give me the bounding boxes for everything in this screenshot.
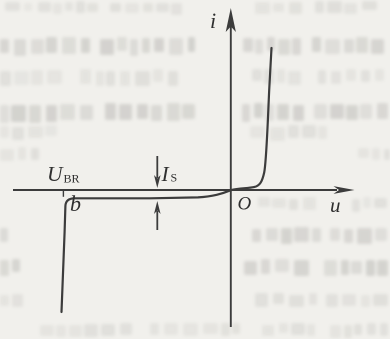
svg-text:S: S bbox=[171, 171, 178, 185]
svg-text:b: b bbox=[70, 191, 81, 216]
svg-text:I: I bbox=[161, 162, 170, 186]
i axis (vertical) with arrowhead bbox=[226, 8, 236, 327]
svg-text:i: i bbox=[210, 8, 216, 33]
I_S down arrow (above axis) bbox=[154, 156, 161, 188]
I_S up arrow (below saturation line) bbox=[154, 201, 161, 230]
diode characteristic curve (breakdown, reverse saturation, forward branch) bbox=[62, 48, 272, 312]
U_BR tick on u axis bbox=[62, 190, 64, 197]
u axis (horizontal) with arrowhead bbox=[13, 186, 355, 194]
svg-text:U: U bbox=[47, 162, 64, 186]
svg-text:O: O bbox=[238, 194, 252, 215]
svg-text:u: u bbox=[330, 193, 341, 217]
svg-text:BR: BR bbox=[64, 172, 80, 186]
